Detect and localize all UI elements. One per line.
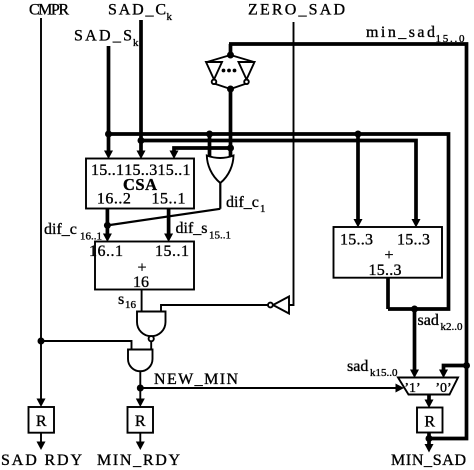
svg-text:R: R (36, 413, 47, 430)
svg-text:16..1: 16..1 (89, 243, 123, 260)
adder U2 box (+16) (95, 242, 194, 290)
arrowheads into CSA (104, 151, 113, 160)
wire SAD_S_k vertical (107, 46, 111, 152)
wire NEW_MIN to mux select (140, 387, 396, 389)
svg-text:SAD_S: SAD_S (74, 28, 132, 45)
wire SAD_C_k vertical (139, 20, 143, 152)
CSA box (86, 159, 194, 209)
svg-text:15..3: 15..3 (397, 232, 430, 249)
wire sad_k2..0 to mux (413, 309, 417, 373)
node OR left input junction (206, 131, 213, 138)
wire min_sad top bus and right edge loop (229, 44, 467, 439)
wire OR gate left input (208, 134, 212, 158)
node top of inverter bus (227, 52, 234, 59)
wire R2 output (139, 433, 141, 445)
svg-text:16: 16 (125, 299, 137, 311)
svg-text:R: R (424, 414, 435, 431)
inverter bus fan lines (207, 55, 254, 89)
svg-text:NEW_MIN: NEW_MIN (154, 371, 238, 388)
svg-text:’0’: ’0’ (435, 381, 451, 396)
wire 0-input branch from min_sad (444, 366, 467, 373)
AND gate U5 (128, 350, 153, 372)
register R1 (29, 407, 55, 433)
svg-text:k: k (133, 37, 139, 49)
svg-text:dif_c: dif_c (226, 194, 259, 211)
wire OR gate output dif_c1 (219, 183, 221, 209)
node bottom of inverter bus (227, 86, 234, 93)
node SAD_C junction (138, 137, 145, 144)
svg-text:MIN_SAD: MIN_SAD (391, 452, 466, 469)
wire bus B from SAD_C junction (141, 141, 416, 224)
node min_sad 0-branch junction (463, 362, 470, 369)
svg-text:16: 16 (133, 274, 149, 291)
svg-text:k: k (167, 11, 173, 23)
wire s16 adder output (141, 290, 143, 312)
wire inverter chain output to OR gate (229, 89, 233, 158)
svg-text:15..3: 15..3 (340, 232, 373, 249)
wire inverter output to NAND (161, 305, 268, 312)
wire diagonal dif_c1 to dif_c bus (107, 209, 220, 226)
inverter right triangle (239, 62, 255, 80)
svg-text:k15..0: k15..0 (370, 367, 398, 379)
svg-text:SAD_C: SAD_C (108, 2, 166, 19)
wire ZERO_SAD vertical (289, 22, 294, 305)
node MIN_SAD output junction (426, 435, 433, 442)
wire R1 output (40, 433, 42, 445)
arrowhead SAD_RDY out (37, 442, 46, 451)
svg-text:15..1: 15..1 (152, 191, 186, 208)
wire NAND output (150, 341, 152, 350)
inverter left triangle (206, 62, 222, 80)
svg-text:dif_s: dif_s (176, 220, 208, 237)
wire right adder left input (356, 134, 360, 223)
wire right adder output (386, 278, 390, 309)
NAND gate U4 (137, 312, 166, 337)
arrowhead MIN_RDY out (136, 442, 145, 451)
node inverted min_sad junction (227, 145, 234, 152)
OR gate dif_c1 (207, 156, 234, 184)
svg-text:16..1: 16..1 (80, 231, 102, 243)
svg-text:R: R (135, 413, 146, 430)
arrowhead into R2 (136, 399, 145, 408)
svg-text:SAD RDY: SAD RDY (1, 452, 82, 469)
arrowhead into R1 (37, 399, 46, 408)
wire CMPR vertical (40, 18, 42, 402)
svg-text:15..1: 15..1 (91, 162, 124, 179)
register R2 (128, 407, 154, 433)
node dif_c merge junction (104, 222, 111, 229)
node CMPR branch junction (38, 338, 45, 345)
arrowhead mux select (396, 384, 405, 393)
arrowheads into adder U2 (103, 234, 112, 243)
node SAD_S junction (105, 131, 112, 138)
svg-text:s: s (118, 291, 124, 308)
svg-text:dif_c: dif_c (44, 221, 77, 238)
node sad_k merge junction (411, 306, 418, 313)
wire CSA left output (106, 209, 110, 238)
wire CMPR branch to AND (41, 341, 132, 350)
wire mux output to register (427, 395, 431, 404)
wire AND output NEW_MIN (139, 371, 141, 403)
svg-text:15..1: 15..1 (209, 230, 231, 242)
svg-text:’1’: ’1’ (404, 381, 420, 396)
arrowhead MIN_SAD out (425, 444, 434, 453)
mux M1 (398, 378, 458, 395)
arrowheads into mux (410, 370, 419, 379)
svg-text:MIN_RDY: MIN_RDY (97, 452, 180, 469)
adder U3 box right (15..3) (334, 227, 443, 278)
svg-text:sad: sad (347, 358, 368, 375)
svg-text:CMPR: CMPR (29, 2, 69, 19)
register R3 (417, 408, 443, 433)
wire bus C inverted min_sad to CSA (174, 148, 231, 152)
wire register R3 output (427, 433, 431, 449)
svg-text:15..1: 15..1 (158, 162, 191, 179)
ellipsis dots (222, 69, 226, 73)
wire bus A from SAD_S junction (109, 134, 449, 309)
svg-text:1: 1 (260, 203, 266, 215)
inverter U6 ZERO_SAD (273, 297, 289, 314)
wire inverter chain input stub (229, 44, 233, 55)
svg-text:k2..0: k2..0 (441, 321, 464, 333)
wire CSA right output dif_s (167, 209, 171, 238)
svg-text:16..2: 16..2 (97, 191, 131, 208)
svg-text:sad: sad (418, 312, 439, 329)
node bus A right junction (355, 131, 362, 138)
arrowheads into adder U3 (354, 219, 363, 228)
svg-text:15..1: 15..1 (155, 243, 189, 260)
node NEW_MIN junction (137, 385, 144, 392)
svg-text:15..3: 15..3 (369, 262, 402, 279)
arrowhead into R3 (425, 400, 434, 409)
